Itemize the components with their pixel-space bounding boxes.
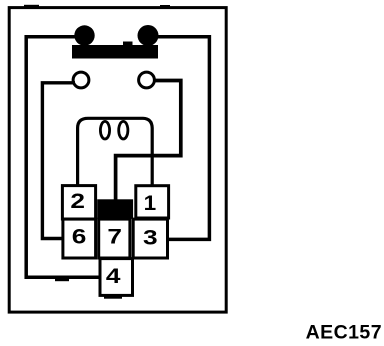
scan speck under bottom-left wire xyxy=(55,279,69,281)
svg-text:3: 3 xyxy=(143,226,158,250)
svg-text:6: 6 xyxy=(72,224,87,248)
pin 6 box xyxy=(63,219,96,258)
movable contact bar xyxy=(72,42,158,59)
svg-text:4: 4 xyxy=(106,264,121,288)
wire: left movable contact to pin 4 (left side, bottom run) xyxy=(26,37,100,278)
contact point left (filled circle) xyxy=(74,25,94,45)
svg-text:7: 7 xyxy=(107,224,122,248)
svg-text:2: 2 xyxy=(70,189,85,213)
wire: right fixed contact to pin 7 (via top of black pad) xyxy=(116,81,181,203)
coil loop 1 xyxy=(100,121,109,139)
contact point right (filled circle) xyxy=(138,25,159,46)
scan speck top border xyxy=(24,5,170,7)
label AEC157 xyxy=(306,321,382,343)
scan speck under pin 4 box xyxy=(104,297,122,299)
pin 7 box xyxy=(99,219,130,258)
wire: left fixed contact to pin 6 xyxy=(42,83,75,239)
pin 4 box xyxy=(100,259,133,296)
coil loop 2 xyxy=(119,121,128,139)
svg-text:AEC157: AEC157 xyxy=(306,321,382,343)
pin 3 box xyxy=(133,219,167,258)
wire: right movable contact to pin 3 (right side run) xyxy=(148,37,209,240)
fixed contact right (open circle) xyxy=(139,72,155,88)
coil L (body) xyxy=(78,118,153,187)
fixed contact left (open circle) xyxy=(73,72,89,88)
svg-text:1: 1 xyxy=(144,190,157,214)
black pad (common terminal block) xyxy=(97,199,133,219)
pin 2 box xyxy=(62,186,95,219)
relay case outline xyxy=(9,8,226,313)
pin 1 box xyxy=(136,186,169,218)
